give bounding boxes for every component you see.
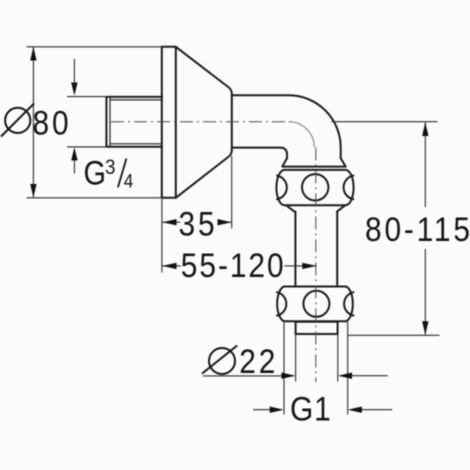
bottom nut right side hole	[344, 292, 353, 315]
top nut body	[276, 170, 353, 205]
G1 right extension line	[347, 322, 349, 415]
top nut right side hole	[344, 176, 354, 200]
flange cone	[176, 47, 232, 198]
svg-text:80-115: 80-115	[365, 210, 470, 248]
80-115 bottom reference line	[348, 334, 440, 336]
dia22 right shaft	[351, 375, 388, 377]
dia22 right extension line	[337, 335, 339, 382]
80-115 dimension line	[424, 122, 426, 334]
dia22 symbol	[202, 346, 237, 375]
35 left extension line	[161, 199, 163, 273]
vertical centerline	[315, 147, 317, 382]
G1 left arrow	[270, 407, 284, 413]
dia80 top extension line	[27, 46, 162, 48]
centerlines	[111, 122, 316, 382]
80-115 down arrow	[422, 321, 428, 335]
top nut left side hole	[277, 176, 287, 200]
svg-text:4: 4	[124, 171, 134, 192]
80-115 top reference line	[332, 121, 438, 123]
dia80 symbol	[1, 103, 34, 136]
35 left arrow	[162, 219, 176, 225]
G1 left shaft	[253, 409, 271, 411]
outlet box below bottom nut	[296, 322, 338, 334]
G3/4 lower extension line	[67, 146, 106, 148]
svg-text:G1: G1	[290, 390, 332, 428]
bottom nut center hole	[303, 291, 329, 317]
bottom nut body	[277, 287, 353, 322]
svg-text:G: G	[84, 153, 106, 192]
svg-text:3: 3	[105, 156, 116, 179]
G3/4 down arrow	[71, 83, 77, 96]
G3/4 up arrow	[71, 147, 77, 160]
80-115 up arrow	[422, 122, 428, 136]
dia80 top arrow	[30, 47, 36, 61]
nut flare	[282, 158, 345, 166]
55-120 dimension line	[162, 265, 316, 267]
flange rim	[162, 47, 176, 198]
G1 right shaft	[361, 409, 392, 411]
55-120 left arrow	[162, 263, 176, 269]
G1 right arrow	[348, 407, 362, 413]
connecting pipe	[295, 212, 337, 287]
svg-text:22: 22	[239, 342, 278, 380]
dia80 dimension line	[32, 47, 34, 198]
elbow outer wall	[232, 95, 341, 158]
elbow inner wall	[232, 148, 287, 159]
dia22 leader line	[203, 375, 282, 377]
G3/4 upper extension line	[67, 96, 106, 98]
outlet box top line	[296, 321, 338, 323]
35 dimension line	[162, 221, 231, 223]
55-120 right arrow	[302, 263, 316, 269]
bend centerline arc	[289, 122, 315, 148]
dimension lines (thin)	[27, 47, 440, 415]
G3/4 upper arrow shaft	[73, 59, 75, 84]
horizontal centerline	[111, 121, 290, 123]
G3/4 lower arrow shaft	[73, 160, 75, 174]
35 right arrow	[218, 219, 232, 225]
G1 left extension line	[283, 322, 285, 415]
bottom nut left side hole	[277, 292, 286, 315]
35 right extension line	[231, 156, 233, 229]
svg-text:55-120: 55-120	[181, 246, 286, 284]
dia22 right arrow	[338, 373, 352, 379]
top nut center hole	[302, 174, 328, 200]
dia80 bottom arrow	[30, 184, 36, 198]
thread root lines	[110, 97, 162, 146]
svg-text:35: 35	[179, 205, 218, 243]
svg-text:80: 80	[33, 104, 72, 142]
top nut skirt	[286, 205, 345, 211]
threaded inlet stub outline	[106, 97, 162, 147]
dia80 bottom extension line	[27, 197, 162, 199]
dia22 left arrow	[281, 373, 295, 379]
dia22 left extension line	[295, 335, 297, 382]
arrowheads	[30, 47, 428, 413]
